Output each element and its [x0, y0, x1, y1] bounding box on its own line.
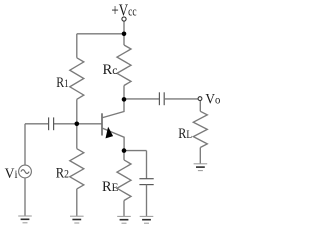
- svg-text:RE: RE: [102, 179, 118, 195]
- terminal Vo circle: [198, 97, 202, 101]
- wire RE bottom lead: [123, 201, 125, 217]
- wire Vi bottom lead: [24, 178, 26, 216]
- ground R2: [70, 216, 84, 223]
- node junction dot top rail: [122, 32, 127, 37]
- transistor Q1 emitter lead: [103, 128, 125, 150]
- svg-text:RL: RL: [178, 126, 192, 142]
- wire R2 bottom lead: [76, 189, 78, 216]
- resistor R1: [70, 58, 84, 100]
- terminal Vcc circle: [122, 17, 126, 21]
- wire R1 bottom lead: [76, 99, 78, 124]
- wire R2 top lead: [76, 124, 78, 149]
- resistor RC: [117, 45, 131, 86]
- capacitor C1 input plates: [48, 117, 50, 130]
- transistor Q1 collector lead: [103, 99, 124, 117]
- node junction dot collector: [122, 97, 127, 102]
- ground RL: [194, 164, 208, 171]
- wire bypass cap bottom lead: [146, 185, 148, 217]
- resistor RL: [193, 111, 207, 147]
- ground RE: [117, 216, 131, 223]
- wire RC top lead: [123, 34, 125, 45]
- wire emitter node to bypass cap: [124, 150, 147, 152]
- wire R1 top lead: [76, 34, 78, 58]
- svg-text:Vo: Vo: [205, 91, 220, 107]
- ground Vi: [18, 216, 32, 223]
- capacitor C2 output plates: [158, 92, 160, 105]
- wire input to base: [54, 123, 102, 125]
- capacitor CE plates: [139, 178, 153, 180]
- resistor R2: [70, 149, 84, 189]
- wire output cap to Vo: [164, 98, 198, 100]
- wire Vi to cap: [25, 123, 49, 125]
- svg-text:R2: R2: [56, 165, 69, 181]
- svg-text:+Vcc: +Vcc: [111, 0, 137, 19]
- source Vi circle: [19, 165, 32, 178]
- wire RC bottom lead: [123, 86, 125, 100]
- resistor RE: [117, 160, 131, 201]
- wire RL bottom lead: [199, 148, 201, 164]
- wire bypass cap top lead: [146, 151, 148, 179]
- wire emitter node down: [123, 151, 125, 160]
- transistor Q1 emitter arrow: [106, 127, 114, 139]
- source Vi sine: [21, 170, 29, 174]
- wire Vo to RL: [199, 101, 201, 112]
- svg-text:Rc: Rc: [103, 62, 118, 78]
- wire top rail: [77, 33, 124, 35]
- wire Vcc stub: [123, 21, 125, 34]
- svg-text:R1: R1: [56, 75, 69, 91]
- node junction dot base: [75, 122, 80, 127]
- svg-text:Vi: Vi: [5, 166, 18, 182]
- transistor Q1 bar: [101, 113, 103, 135]
- wire collector to output cap: [124, 98, 159, 100]
- node junction dot emitter: [122, 148, 127, 153]
- wire Vi top lead: [24, 124, 26, 165]
- ground CE: [140, 216, 154, 223]
